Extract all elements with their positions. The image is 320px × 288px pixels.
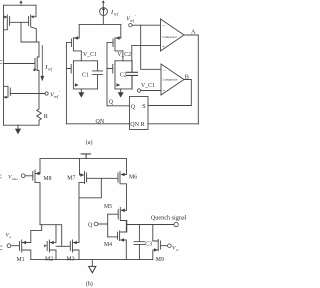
power VDD symbol part b	[81, 154, 90, 159]
wire gate rail Q right branch	[107, 42, 113, 105]
arrowhead M3 drain	[73, 241, 77, 244]
wire M7 M6 gate	[87, 177, 118, 179]
wire diode connection	[21, 22, 39, 42]
wire bottom rail part b	[31, 259, 153, 261]
wire gate rail QN left branch	[66, 42, 71, 123]
arrowhead M5 source	[121, 209, 125, 213]
svg-text:Q: Q	[109, 100, 114, 106]
arrowhead Iref current	[40, 76, 44, 81]
ground symbol right branch	[118, 92, 124, 97]
wire comp1 output A	[184, 35, 198, 124]
terminal M9 gate	[168, 244, 172, 248]
transistor reset NMOS left branch	[66, 61, 73, 89]
wire M9 drain	[153, 225, 158, 242]
capacitor C2	[127, 61, 138, 89]
wire Vref' to comp1 minus	[132, 24, 160, 26]
arrowhead NMOS bias	[34, 68, 37, 71]
terminal M8 gate	[21, 174, 25, 178]
svg-text:–: –	[162, 68, 166, 73]
wire Vref node	[10, 93, 45, 95]
svg-text:V_C1: V_C1	[141, 83, 155, 89]
arrowhead NMOS right branch source	[117, 83, 121, 86]
wire branch bottom right	[115, 88, 132, 90]
wire branch drop left	[78, 25, 80, 38]
arrowhead M4 source	[120, 238, 124, 241]
arrowhead M2 drain	[50, 241, 54, 244]
transistor M2	[47, 225, 56, 260]
svg-text:M4: M4	[104, 242, 112, 248]
svg-text:–: –	[162, 23, 166, 28]
transistor switch PMOS left branch	[71, 38, 81, 61]
svg-text:C3: C3	[145, 241, 152, 247]
ground left block	[17, 125, 19, 128]
svg-text:ref: ref	[54, 94, 59, 99]
svg-text:′: ′	[135, 15, 136, 19]
transistor NMOS bottom left	[4, 86, 11, 97]
wire Vref' drop to comp2 minus	[141, 25, 161, 69]
capacitor C1	[93, 61, 103, 89]
current source inner arrow	[103, 9, 105, 14]
comparator U2 triangle	[161, 64, 184, 95]
svg-text:Q: Q	[131, 105, 136, 111]
svg-text:Q: Q	[88, 223, 93, 229]
arrowhead M7 source	[80, 173, 84, 177]
transistor PMOS pair right device	[29, 5, 37, 42]
arrowhead NMOS bottom left source	[4, 96, 7, 99]
scan artifact marks left edge	[0, 61, 3, 250]
svg-text:M3: M3	[67, 257, 75, 263]
wire M4 gate	[108, 236, 118, 238]
comparator U1 triangle	[161, 19, 185, 51]
transistor M8	[33, 158, 40, 224]
resistor R	[37, 94, 42, 126]
transistor M7	[79, 158, 87, 242]
transistor M3	[70, 240, 79, 260]
ground stem right branch	[120, 89, 122, 92]
svg-text:QN: QN	[130, 122, 139, 128]
arrowhead M2 gate stub	[44, 244, 47, 247]
svg-text:el: el	[176, 248, 179, 252]
svg-text:M7: M7	[67, 176, 75, 182]
wire node VC2	[115, 60, 132, 62]
current source Iref circle	[100, 8, 108, 16]
svg-text:′: ′	[60, 90, 61, 95]
wire quench output	[127, 224, 174, 226]
wire top rail part b	[41, 157, 127, 159]
svg-text:A: A	[191, 28, 196, 35]
svg-text:ref: ref	[130, 19, 135, 23]
svg-text:Comparator: Comparator	[163, 78, 178, 82]
svg-text:V_C2: V_C2	[117, 52, 131, 58]
wire ground bottom left	[4, 124, 40, 126]
ground stem left branch	[80, 89, 82, 92]
transistor M bias NMOS	[4, 42, 40, 94]
arrowhead PMOS right branch	[116, 36, 120, 39]
arrowhead NMOS left branch source	[75, 83, 79, 86]
svg-text:ref: ref	[48, 67, 53, 72]
VDD arrow top left block	[20, 2, 22, 5]
terminal quench output	[174, 222, 178, 226]
svg-text:B: B	[185, 73, 189, 80]
svg-text:V_C1: V_C1	[83, 52, 97, 58]
arrowhead PMOS right source	[31, 15, 34, 18]
wire mirror bias	[40, 225, 62, 247]
svg-text:R: R	[44, 113, 49, 120]
arrowhead VDD left	[19, 0, 22, 3]
svg-text:C2: C2	[120, 73, 127, 79]
svg-text:R: R	[141, 122, 145, 128]
wire M8 gate input	[25, 175, 33, 177]
wire node VC1	[73, 60, 97, 62]
svg-text:M1: M1	[17, 257, 25, 263]
svg-text:M9: M9	[156, 257, 164, 263]
wire gate mirror	[10, 21, 29, 23]
wire top rail left block	[4, 4, 37, 6]
svg-text:a: a	[10, 235, 12, 239]
wire M7 diode connection	[79, 178, 101, 198]
transistor M1	[20, 230, 31, 259]
transistor switch PMOS right branch	[113, 38, 123, 61]
arrowhead current source	[102, 7, 105, 10]
svg-text:(b): (b)	[86, 280, 93, 287]
svg-text:M6: M6	[129, 175, 137, 181]
wire branch bottom left	[73, 88, 97, 90]
transistor M5	[118, 208, 127, 233]
svg-text:M2: M2	[45, 257, 53, 263]
wire branch drop right	[120, 25, 122, 38]
wire S input	[148, 105, 191, 107]
wire Q output	[107, 105, 130, 107]
svg-text:M5: M5	[104, 204, 112, 210]
arrowhead M6 source	[121, 173, 125, 177]
terminal Vref' middle	[129, 24, 132, 27]
arrowhead M8 source	[36, 172, 40, 176]
ground stem part b	[91, 260, 93, 267]
terminal Q input	[94, 222, 98, 226]
arrowhead PMOS left source	[4, 16, 7, 19]
ground symbol left branch	[78, 92, 84, 97]
transistor M9	[153, 239, 168, 259]
wire M1 gate input	[11, 245, 20, 247]
svg-text:QN: QN	[96, 119, 105, 125]
arrowhead M9 source	[154, 248, 158, 251]
wire comp2 output B	[184, 80, 191, 106]
arrowhead M1 drain	[22, 241, 26, 244]
arrowhead top tick current source	[102, 0, 105, 3]
wire Q input node	[98, 214, 108, 237]
transistor M6	[118, 158, 127, 210]
wire comp1 plus riser	[132, 45, 161, 60]
wire M8 M1 node	[31, 225, 42, 231]
svg-text:S: S	[142, 104, 145, 110]
svg-text:+: +	[163, 89, 166, 94]
transistor PMOS pair left device	[4, 15, 10, 30]
terminal M1 gate	[7, 244, 11, 248]
wire M5 gate	[108, 213, 119, 215]
svg-text:Quench signal: Quench signal	[151, 214, 187, 221]
arrowhead PMOS left branch	[74, 36, 78, 39]
transistor reset NMOS right branch	[107, 61, 115, 89]
terminal Vref' left	[45, 92, 48, 95]
capacitor C3	[134, 242, 145, 260]
svg-text:+: +	[162, 45, 165, 50]
wire R input	[148, 123, 198, 125]
wire M2 M3 gate	[56, 245, 70, 247]
ground symbol part b	[89, 266, 96, 272]
ground symbol left block	[15, 129, 21, 135]
svg-text:M8: M8	[44, 176, 52, 182]
wire branch rail	[79, 24, 121, 26]
wire VC1 to comp2 plus	[141, 90, 161, 92]
current source leads	[102, 2, 104, 25]
svg-text:(a): (a)	[86, 139, 93, 146]
wire QN output	[66, 123, 129, 125]
svg-text:C1: C1	[82, 73, 89, 79]
transistor M4	[118, 221, 127, 260]
wire left rail	[3, 5, 5, 125]
svg-text:Comparator: Comparator	[162, 35, 177, 39]
latch SR box	[130, 97, 149, 130]
terminal VC1	[137, 89, 140, 92]
wire C3 riser	[138, 225, 140, 242]
wire current arrow Iref stem	[41, 46, 43, 77]
svg-text:ref: ref	[114, 12, 119, 17]
svg-text:bias: bias	[12, 177, 18, 181]
